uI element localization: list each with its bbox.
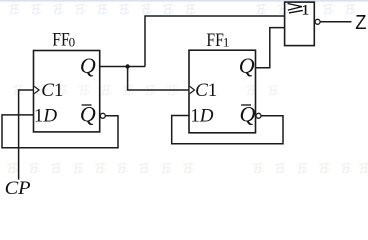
pin: FF1 Qbar inversion bubble (256, 113, 261, 118)
pin: FF0 Qbar inversion bubble (100, 113, 105, 118)
svg-text:1: 1 (223, 35, 230, 50)
svg-text:FF: FF (52, 30, 70, 51)
wire: FF1 Qbar feedback to FF1 1D (172, 116, 283, 144)
or-gate U1 box (285, 2, 315, 46)
wire: FF0 Q output (100, 66, 145, 68)
svg-text:1D: 1D (190, 105, 214, 126)
wire: FF0 Q to FF1 C1 (128, 67, 189, 91)
wire: CP to FF0 C1 (19, 90, 34, 180)
wire: FF0 Qbar feedback to FF0 1D (2, 115, 118, 148)
node: junction dot FF0 Q branch (125, 64, 129, 68)
svg-text:1: 1 (302, 3, 310, 19)
svg-text:1D: 1D (34, 105, 58, 126)
flip-flop FF0 box (34, 51, 100, 132)
pin: FF0 C1 dynamic clock triangle (34, 86, 39, 93)
svg-text:Z: Z (355, 12, 366, 34)
flip-flop FF1 box (189, 50, 256, 133)
wire: OR gate output to Z (320, 21, 351, 23)
svg-text:FF: FF (206, 30, 224, 51)
label: OR gate >=1 symbol (288, 4, 303, 13)
pin: FF1 C1 dynamic clock triangle (190, 86, 195, 93)
svg-text:0: 0 (69, 35, 76, 50)
wire: top run to OR gate input 1 (145, 16, 285, 67)
svg-text:C1: C1 (41, 80, 63, 101)
wire: FF1 Q output up to OR gate input 2 (256, 28, 285, 68)
svg-text:Q: Q (239, 53, 255, 78)
pin: OR gate output inversion bubble (315, 19, 320, 24)
svg-text:C1: C1 (195, 80, 217, 101)
svg-text:CP: CP (5, 179, 31, 195)
svg-text:Q: Q (80, 53, 96, 78)
